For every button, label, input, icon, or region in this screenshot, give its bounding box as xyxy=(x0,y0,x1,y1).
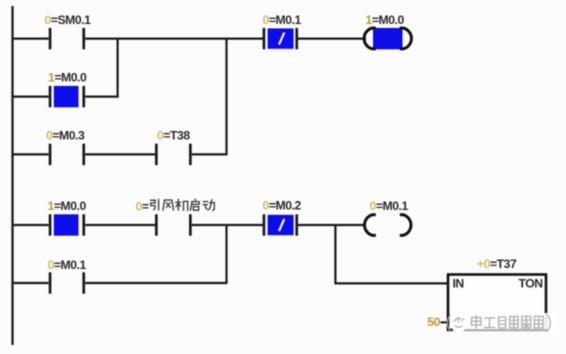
wire timer branch to timer IN input xyxy=(334,282,448,284)
junction rung1 to branch M0.3/T38 xyxy=(225,38,227,156)
junction rung2 to branch M0.1 xyxy=(225,224,227,284)
svg-text:0=: 0= xyxy=(136,199,149,213)
negated contact M0.2 rung2 xyxy=(263,214,299,235)
contact T38 (NO, off) xyxy=(155,144,192,165)
CJK glyph feng xyxy=(163,200,174,210)
pin label TON xyxy=(519,276,543,290)
negated contact M0.1 rung1 xyxy=(263,28,299,49)
svg-text:1=M0.0: 1=M0.0 xyxy=(48,199,87,213)
contact M0.0 rung2 (NO, energized) xyxy=(49,214,85,235)
svg-text:0=M0.2: 0=M0.2 xyxy=(263,199,302,213)
wire rung2 negated contact to coil M0.1 xyxy=(298,224,367,226)
label 1=M0.0 coil rung1 xyxy=(366,13,405,27)
wire branch3 contact T38 to junction xyxy=(192,153,228,155)
pin label IN xyxy=(453,276,464,290)
svg-text:+0=T37: +0=T37 xyxy=(477,257,517,271)
label +0=T37 xyxy=(477,257,517,271)
label 0=T38 xyxy=(157,129,190,143)
contact fan-start (NO, off) xyxy=(155,214,192,235)
wire branch3 rail to contact M0.3 xyxy=(12,153,49,155)
label 1=M0.0 rung2 xyxy=(48,199,87,213)
watermark glyph 3 xyxy=(499,317,506,328)
label 0=M0.1 rung1 xyxy=(263,13,302,27)
label 0=fan-start (0=yin feng ji qi dong) xyxy=(136,199,215,213)
label 0=M0.1 branch5 xyxy=(48,258,87,272)
svg-text:50: 50 xyxy=(427,315,440,329)
coil M0.0 (energized) xyxy=(364,28,411,49)
svg-text:0=M0.1: 0=M0.1 xyxy=(263,13,302,27)
wire branch2 rail to contact M0.0 xyxy=(12,95,49,97)
CJK glyph ji xyxy=(176,199,188,210)
wire rung1 contact SM0.1 to negated contact M0.1 xyxy=(85,37,263,39)
left power rail xyxy=(11,6,13,345)
CJK glyph dong xyxy=(203,200,214,211)
watermark glyph 5 xyxy=(522,316,531,328)
contact M0.1 branch5 (NO, off) xyxy=(49,272,85,293)
svg-text:0=M0.1: 0=M0.1 xyxy=(370,199,409,213)
label 0=M0.3 xyxy=(46,129,85,143)
watermark glyph 1 xyxy=(472,316,482,329)
CJK glyph yin xyxy=(151,199,159,210)
svg-text:1=M0.0: 1=M0.0 xyxy=(48,71,87,85)
svg-text:0=SM0.1: 0=SM0.1 xyxy=(45,13,92,27)
wire rung2 fan-start to negated contact M0.2 xyxy=(192,224,264,226)
wire rung2 rail to contact M0.0 xyxy=(12,224,49,226)
svg-text:1=M0.0: 1=M0.0 xyxy=(366,13,405,27)
wire branch5 rail to contact M0.1 xyxy=(12,282,49,284)
svg-text:TON: TON xyxy=(519,276,543,290)
value 50 at PT input xyxy=(427,315,440,329)
svg-text:0=M0.1: 0=M0.1 xyxy=(48,258,87,272)
watermark pill background xyxy=(451,313,558,334)
contact M0.0 (NO, energized) xyxy=(49,86,85,107)
label 0=SM0.1 xyxy=(45,13,92,27)
junction rung1 to branch M0.0 xyxy=(116,38,118,98)
timer box T37 TON xyxy=(448,275,546,330)
coil M0.1 (off) xyxy=(365,215,411,236)
wire rung1 rail to contact SM0.1 xyxy=(12,37,49,39)
svg-text:IN: IN xyxy=(453,276,464,290)
svg-text:0=M0.3: 0=M0.3 xyxy=(46,129,85,143)
label 0=M0.1 coil rung2 xyxy=(370,199,409,213)
junction rung2 to timer branch xyxy=(334,224,336,283)
CJK glyph qi xyxy=(190,199,199,210)
wire rung2 contact M0.0 to contact fan-start xyxy=(85,224,155,226)
pin label PT xyxy=(453,316,469,330)
label 0=M0.2 xyxy=(263,199,302,213)
svg-text:0=T38: 0=T38 xyxy=(157,129,190,143)
wire branch5 contact M0.1 to junction xyxy=(85,282,227,284)
contact M0.3 (NO, off) xyxy=(49,144,85,165)
wire rung1 negated contact to coil M0.0 xyxy=(298,37,367,39)
watermark close parenthesis xyxy=(547,315,550,331)
watermark logo circle xyxy=(450,315,467,332)
watermark glyph 6 xyxy=(534,316,543,328)
wire branch2 contact M0.0 to junction xyxy=(85,95,118,97)
label 1=M0.0 branch2 xyxy=(48,71,87,85)
watermark glyph 2 xyxy=(484,318,495,328)
watermark open parenthesis xyxy=(447,315,450,331)
watermark glyph 4 xyxy=(510,317,518,329)
contact SM0.1 (NO, off) xyxy=(49,28,85,49)
wire stub 50 to PT xyxy=(441,321,448,323)
wire branch3 contact M0.3 to contact T38 xyxy=(85,153,155,155)
